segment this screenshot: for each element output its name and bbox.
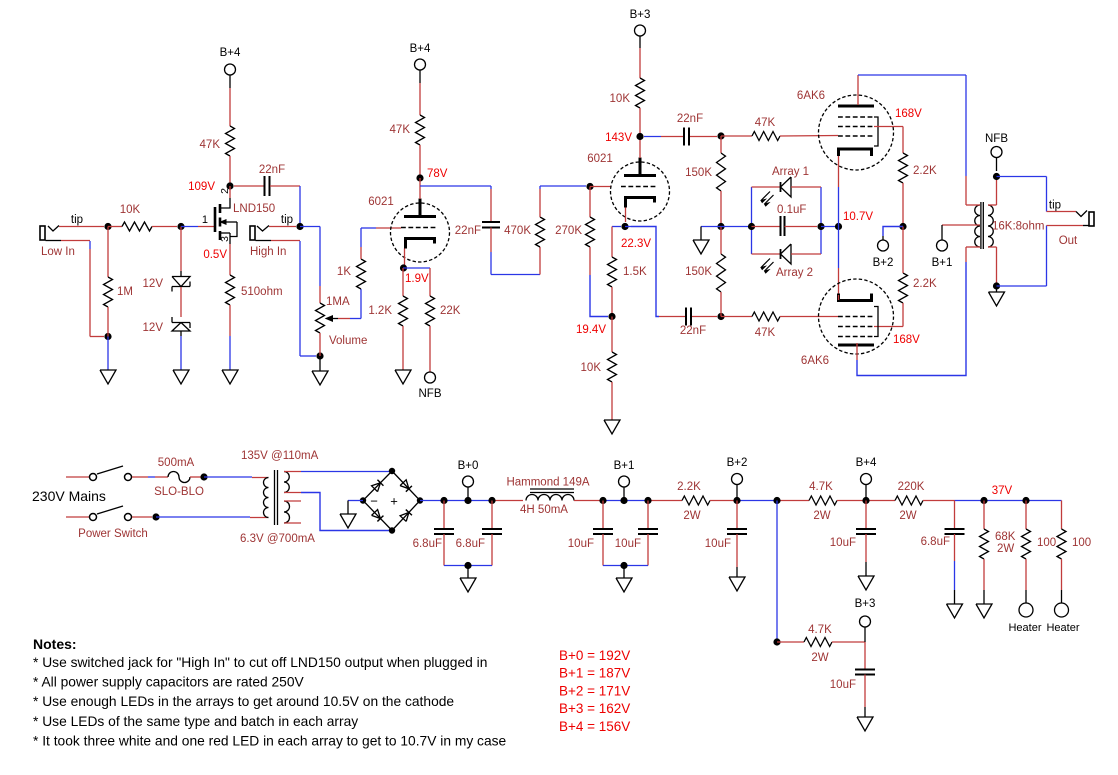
svg-text:78V: 78V [427,168,448,180]
svg-text:100: 100 [1072,537,1091,549]
svg-text:150K: 150K [685,266,712,278]
svg-text:168V: 168V [895,108,922,120]
svg-text:10K: 10K [610,93,631,105]
svg-text:6.8uF: 6.8uF [413,538,442,550]
svg-text:tip: tip [281,214,293,226]
svg-text:10K: 10K [120,204,141,216]
svg-text:2: 2 [219,188,231,194]
svg-text:10uF: 10uF [568,538,594,550]
svg-text:47K: 47K [390,124,411,136]
svg-text:Hammond 149A: Hammond 149A [506,477,589,489]
svg-text:500mA: 500mA [158,457,195,469]
svg-text:Out: Out [1059,235,1078,247]
svg-text:10K: 10K [581,362,602,374]
svg-text:168V: 168V [893,334,920,346]
svg-text:10.7V: 10.7V [843,211,873,223]
svg-text:1M: 1M [117,286,133,298]
svg-text:47K: 47K [755,117,776,129]
svg-text:B+3 = 162V: B+3 = 162V [559,701,630,716]
svg-text:B+0 = 192V: B+0 = 192V [559,648,630,663]
svg-text:6.8uF: 6.8uF [921,536,950,548]
svg-text:B+2: B+2 [873,257,894,269]
svg-text:230V Mains: 230V Mains [32,488,106,504]
svg-text:1.2K: 1.2K [368,305,392,317]
svg-text:1: 1 [202,214,208,226]
svg-text:0.1uF: 0.1uF [777,204,806,216]
svg-text:B+1: B+1 [614,460,635,472]
svg-text:Heater: Heater [1046,622,1079,634]
svg-text:12V: 12V [143,278,164,290]
svg-text:B+4: B+4 [220,47,241,59]
svg-text:10uF: 10uF [615,538,641,550]
svg-text:B+1: B+1 [932,257,953,269]
svg-text:NFB: NFB [985,133,1008,145]
svg-text:LND150: LND150 [233,203,275,215]
svg-text:22K: 22K [440,305,461,317]
svg-text:37V: 37V [992,485,1013,497]
svg-text:6.3V @700mA: 6.3V @700mA [240,533,315,545]
svg-text:Power Switch: Power Switch [78,528,148,540]
svg-text:22nF: 22nF [455,225,481,237]
svg-text:22nF: 22nF [259,164,285,176]
svg-text:B+1 = 187V: B+1 = 187V [559,666,630,681]
svg-text:2W: 2W [683,510,700,522]
svg-text:tip: tip [71,214,83,226]
svg-text:135V @110mA: 135V @110mA [241,450,319,462]
svg-text:Low In: Low In [41,246,75,258]
svg-text:470K: 470K [504,225,531,237]
svg-text:16K:8ohm: 16K:8ohm [992,221,1044,233]
svg-text:* Use LEDs of the same type an: * Use LEDs of the same type and batch in… [33,714,358,729]
svg-text:3: 3 [219,236,231,242]
svg-text:B+0: B+0 [458,460,479,472]
svg-text:22.3V: 22.3V [621,238,651,250]
svg-text:B+3: B+3 [855,598,876,610]
svg-text:47K: 47K [200,139,221,151]
svg-text:10uF: 10uF [830,537,856,549]
svg-text:NFB: NFB [419,388,442,400]
svg-text:220K: 220K [898,481,925,493]
svg-text:150K: 150K [685,167,712,179]
svg-text:19.4V: 19.4V [576,324,606,336]
svg-text:2.2K: 2.2K [913,278,937,290]
svg-text:B+4 = 156V: B+4 = 156V [559,719,630,734]
svg-text:B+2 = 171V: B+2 = 171V [559,683,630,698]
svg-text:1MA: 1MA [326,296,350,308]
svg-text:10uF: 10uF [705,538,731,550]
svg-text:B+3: B+3 [630,9,651,21]
svg-text:* Use switched jack for "High: * Use switched jack for "High In" to cut… [33,655,487,670]
svg-text:−: − [370,494,378,509]
svg-text:47K: 47K [755,327,776,339]
svg-text:B+2: B+2 [727,457,748,469]
svg-text:2.2K: 2.2K [677,481,701,493]
svg-text:2W: 2W [813,510,830,522]
svg-text:2W: 2W [997,543,1014,555]
svg-text:B+4: B+4 [410,43,431,55]
svg-text:Volume: Volume [329,335,367,347]
svg-text:6021: 6021 [368,196,394,208]
svg-text:4.7K: 4.7K [809,481,833,493]
svg-text:6AK6: 6AK6 [797,90,825,102]
svg-text:270K: 270K [555,225,582,237]
svg-text:SLO-BLO: SLO-BLO [154,486,204,498]
svg-text:1.5K: 1.5K [623,266,647,278]
svg-text:4H 50mA: 4H 50mA [520,504,568,516]
svg-text:1.9V: 1.9V [405,273,429,285]
svg-text:2W: 2W [811,652,828,664]
svg-text:* It took three white and one: * It took three white and one red LED in… [33,733,507,748]
svg-text:Array 1: Array 1 [772,166,809,178]
svg-text:+: + [390,494,398,509]
svg-text:109V: 109V [188,181,215,193]
svg-text:2.2K: 2.2K [913,165,937,177]
svg-text:High In: High In [250,246,286,258]
svg-text:12V: 12V [143,322,164,334]
svg-text:143V: 143V [605,132,632,144]
svg-text:tip: tip [1049,200,1061,212]
svg-text:6AK6: 6AK6 [801,355,829,367]
svg-text:B+4: B+4 [856,457,877,469]
svg-text:Notes:: Notes: [33,636,77,652]
svg-text:2W: 2W [899,510,916,522]
svg-text:22nF: 22nF [680,325,706,337]
svg-text:100: 100 [1037,537,1056,549]
svg-text:6.8uF: 6.8uF [456,538,485,550]
svg-text:* Use enough LEDs in the array: * Use enough LEDs in the arrays to get a… [33,694,454,709]
svg-text:10uF: 10uF [830,679,856,691]
svg-text:1K: 1K [337,266,351,278]
svg-text:Heater: Heater [1008,622,1041,634]
svg-text:Array 2: Array 2 [776,267,813,279]
svg-text:6021: 6021 [587,153,613,165]
svg-text:4.7K: 4.7K [808,624,832,636]
svg-text:510ohm: 510ohm [241,286,283,298]
svg-text:* All power supply capacitors: * All power supply capacitors are rated … [33,675,305,690]
svg-text:22nF: 22nF [677,113,703,125]
svg-text:0.5V: 0.5V [203,249,227,261]
svg-text:68K: 68K [995,531,1016,543]
